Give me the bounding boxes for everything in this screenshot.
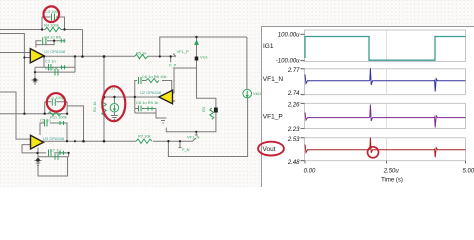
red annotation circle C1 — [47, 93, 65, 111]
wire output rail y56.5 — [44, 55, 176, 57]
svg-text:VG1: VG1 — [200, 55, 209, 60]
wire C1 row y113.7 with bypass loop — [0, 102, 67, 114]
wire feedback rows op-amp1 — [35, 57, 75, 80]
capacitor C1 plates — [52, 99, 55, 106]
subplot frames — [305, 30, 466, 161]
svg-text:R2 10k: R2 10k — [45, 66, 58, 71]
svg-text:U1 OPA348: U1 OPA348 — [44, 49, 66, 54]
svg-text:IG1: IG1 — [263, 43, 274, 50]
svg-text:2.50u: 2.50u — [383, 168, 400, 174]
teal op-amp labels — [43, 49, 162, 141]
red annotation circle on Vout trace — [368, 147, 379, 158]
ground IG1 — [111, 116, 118, 120]
mid gridline — [386, 30, 388, 161]
svg-text:Time (s): Time (s) — [381, 178, 403, 184]
svg-text:VF1_P: VF1_P — [177, 49, 190, 54]
axis number labels — [276, 32, 300, 166]
svg-text:VM1: VM1 — [253, 91, 262, 96]
resistor vertical x211.8 — [210, 108, 214, 119]
svg-text:2.23: 2.23 — [287, 127, 300, 133]
svg-text:VF1_N: VF1_N — [263, 76, 284, 83]
trace Vout — [305, 138, 466, 158]
resistor R5 zigzag — [135, 54, 148, 58]
ground op-amp2 — [160, 118, 167, 123]
svg-text:U3 OPA348: U3 OPA348 — [43, 136, 65, 141]
svg-text:VF1_N: VF1_N — [187, 135, 200, 140]
svg-text:R3: R3 — [201, 106, 206, 112]
op-amp U2 — [159, 90, 173, 104]
glyph row3 — [58, 151, 66, 155]
svg-text:C2 1n: C2 1n — [45, 59, 56, 64]
wire op-amp2 output y97 — [104, 96, 159, 98]
resistor R11 zigzag on wire y113.7 — [48, 112, 61, 116]
trace IG1 square wave — [305, 37, 466, 61]
capacitor C2 plates — [49, 64, 52, 71]
capacitor R2 plates — [55, 69, 58, 76]
svg-text:C5 1n: C5 1n — [40, 117, 51, 122]
pin VF1_P — [171, 54, 176, 63]
ground below op-amp1 rows — [32, 80, 39, 84]
VG1 square blob — [195, 57, 199, 61]
svg-text:2.48: 2.48 — [287, 160, 300, 166]
ground bottom-left — [35, 161, 42, 166]
svg-text:2.77: 2.77 — [287, 68, 300, 74]
pin VF1_N — [192, 138, 195, 141]
x axis labels — [304, 168, 474, 183]
green component symbols — [43, 14, 252, 160]
red annotation ellipse IG1 — [102, 86, 125, 121]
svg-text:U2 OPA348: U2 OPA348 — [140, 90, 162, 95]
wire op-amp3 feedback row — [40, 123, 67, 141]
capacitor row op-amp2 plates — [139, 106, 142, 112]
red annotation circle top-left capacitor — [44, 6, 60, 22]
capacitor plates row y156.8 — [55, 154, 58, 160]
svg-text:VF1_P: VF1_P — [263, 114, 283, 121]
glyph row y67.3 — [60, 65, 66, 69]
VG1 arrow — [195, 41, 198, 45]
capacitor C3 plates — [52, 14, 55, 21]
op-amp U3 — [31, 135, 44, 149]
svg-text:R1 1k: R1 1k — [92, 102, 97, 112]
wire left mid y92 — [0, 92, 31, 139]
op-amp U1 — [30, 49, 44, 63]
svg-text:F_P: F_P — [169, 63, 177, 68]
wire C1 right to ladder — [67, 106, 83, 141]
capacitor C2a plates — [43, 37, 46, 44]
wire top rail y29.5 — [0, 29, 83, 31]
svg-text:R4 100k: R4 100k — [44, 23, 59, 28]
resistor R8 zigzag — [146, 79, 159, 83]
svg-text:2.74: 2.74 — [287, 91, 300, 97]
wire source top — [246, 37, 248, 89]
wire ladder x104 — [103, 57, 105, 142]
svg-text:0.00: 0.00 — [304, 168, 316, 174]
trace VF1_P — [305, 105, 466, 128]
capacitor C5 plates — [45, 120, 48, 127]
wire feedback drop x82.5 — [82, 30, 84, 57]
svg-text:R5 1k: R5 1k — [136, 51, 146, 56]
svg-text:5.00u: 5.00u — [462, 168, 474, 174]
svg-text:-100.00u: -100.00u — [276, 59, 300, 65]
wire bottom-left rectangle — [38, 148, 68, 177]
y ticks — [301, 34, 466, 163]
svg-text:R11 100k: R11 100k — [50, 115, 67, 120]
wire op-amp2 + input — [172, 68, 197, 101]
current source IG1 circle — [110, 104, 118, 112]
pin F_N mid — [195, 132, 198, 135]
svg-text:Vout: Vout — [263, 146, 276, 153]
diode glyph row1 — [60, 39, 66, 43]
wire rail up x159.8 to y37 — [160, 37, 247, 57]
capacitor C7 plates — [49, 150, 52, 157]
glyph op-amp3 feedback — [58, 121, 66, 125]
resistor R7 zigzag on bottom rail — [136, 139, 152, 143]
wire bottom loop right — [168, 98, 247, 157]
resistor R4 zigzag — [45, 27, 61, 31]
waveform panel — [262, 27, 474, 188]
svg-text:C6 1n R8 10k: C6 1n R8 10k — [142, 74, 166, 79]
svg-text:C7 1u: C7 1u — [50, 148, 61, 153]
trace VF1_N — [305, 68, 466, 91]
wire bottom rail y141.2 — [43, 140, 193, 142]
svg-text:C8 1n R9 1k: C8 1n R9 1k — [136, 100, 158, 105]
wire RC row above op-amp1 — [36, 41, 60, 48]
green labels — [40, 9, 262, 153]
wire op-amp1 inv drop — [23, 58, 25, 114]
svg-text:100.00u: 100.00u — [278, 32, 300, 38]
wire VG1 vertical — [166, 37, 216, 132]
glyph row op-amp2 — [146, 107, 154, 111]
wire op-amp1 + input y52.5 — [0, 52, 30, 54]
svg-text:2.53: 2.53 — [287, 137, 300, 143]
capacitor C6 plates — [139, 77, 142, 84]
svg-text:F_N: F_N — [182, 147, 190, 152]
blob capacitor x215.9 — [214, 108, 218, 113]
svg-text:2.26: 2.26 — [287, 102, 300, 108]
wire op-amp2 rows below — [135, 97, 163, 118]
wire left input y33.5 — [0, 34, 30, 58]
stub F_N — [179, 141, 182, 147]
svg-text:C4 1n R6: C4 1n R6 — [44, 34, 62, 39]
wire feedback op-amp2 — [135, 81, 172, 98]
wire IG1 stub — [113, 97, 115, 116]
red annotation ellipse Vout label — [258, 142, 284, 156]
trace name labels — [263, 43, 284, 153]
resistor R1 vertical zigzag — [102, 100, 106, 116]
source circle VM1 — [243, 89, 252, 98]
junction dots — [23, 28, 198, 162]
schematic background — [0, 0, 474, 187]
wire op-amp3 inv input loop — [22, 145, 69, 157]
svg-text:R7 10k: R7 10k — [138, 134, 151, 139]
wire capacitor loop C3 — [42, 17, 65, 30]
